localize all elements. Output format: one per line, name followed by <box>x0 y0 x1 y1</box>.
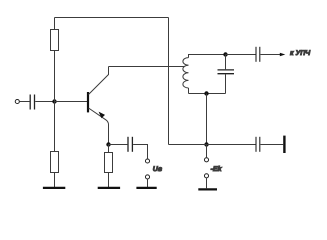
inductor L1 bottom stub <box>188 88 190 94</box>
node -Ek rail junction <box>204 142 208 146</box>
capacitor C3 (tank) <box>218 70 235 74</box>
inductor L1 <box>183 58 189 88</box>
wire C1 to base node <box>35 101 54 103</box>
resistor R1 <box>51 30 59 51</box>
transistor VT1 base bar <box>87 92 89 112</box>
wire input terminal to C1 <box>20 101 30 103</box>
svg-text:Uв: Uв <box>153 166 163 173</box>
wire base node to R2 <box>54 102 56 152</box>
node tank top junction <box>223 52 227 56</box>
resistor R2 <box>51 152 59 173</box>
resistor R3 <box>105 153 113 173</box>
wire -Ek rail <box>169 144 256 146</box>
wire tank bottom to -Ek rail <box>206 94 208 145</box>
capacitor C3 (tank) top lead <box>225 55 227 70</box>
terminal Ug <box>145 159 149 163</box>
inductor L1 top stub <box>189 55 193 58</box>
svg-text:к УПЧ: к УПЧ <box>290 50 311 57</box>
wire R3 bottom lead <box>108 173 110 188</box>
wire R1 top lead <box>54 18 56 30</box>
capacitor C1 (input coupling) <box>30 95 34 110</box>
wire C2 to Ug terminal <box>133 145 147 159</box>
ground under R3 <box>98 187 120 189</box>
capacitor C5 (output coupling) <box>256 47 260 62</box>
capacitor C4 (decoupling) <box>256 137 260 152</box>
wire emitter node to R3 <box>108 145 110 153</box>
wire C4 to chassis <box>260 144 283 146</box>
wire collector to coil tap <box>109 66 185 68</box>
capacitor C2 (heterodyne input) <box>128 137 132 152</box>
wire R2 bottom lead <box>54 173 56 188</box>
transistor VT1 collector <box>89 67 109 95</box>
transistor VT1 emitter <box>89 108 109 145</box>
node emitter junction <box>106 142 110 146</box>
terminal -Ek <box>204 158 208 162</box>
wire base node to transistor base <box>55 101 88 103</box>
wire -Ek ground stub <box>206 178 208 188</box>
ground under -Ek terminal <box>198 188 217 190</box>
wire tank top to output cap <box>226 54 256 56</box>
wire C5 to arrow <box>260 54 280 56</box>
node tank bottom junction <box>204 91 208 95</box>
wire -Ek terminal stub <box>206 145 208 158</box>
capacitor C3 bottom lead <box>225 74 227 93</box>
arrow to UPCh <box>280 53 286 56</box>
wire R1 bottom to base node <box>54 51 56 102</box>
input terminal <box>15 99 19 103</box>
svg-text:-Ek: -Ek <box>211 165 223 173</box>
node base-divider junction <box>52 99 56 103</box>
wire top rail <box>55 17 169 19</box>
wire tank top rail <box>189 54 226 56</box>
chassis bar <box>283 136 285 153</box>
ground under R2 <box>43 187 65 189</box>
terminal ground pair of -Ek <box>204 174 208 178</box>
ground under Ug terminal <box>136 187 156 189</box>
wire emitter node to C2 <box>109 144 128 146</box>
transistor VT1 emitter arrow (PNP) <box>97 110 105 118</box>
wire tank bottom rail <box>189 93 226 95</box>
wire right rail down <box>168 18 170 145</box>
terminal ground pair of Ug <box>145 175 149 179</box>
wire Ug ground stub <box>147 179 149 187</box>
